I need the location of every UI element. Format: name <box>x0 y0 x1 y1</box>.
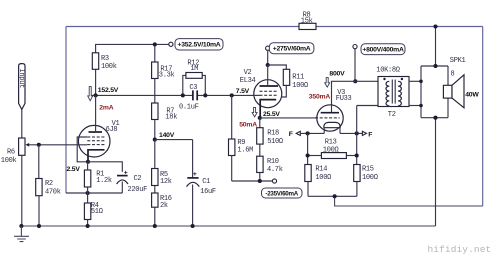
wire R18/R10 link <box>259 144 261 156</box>
wire wiper to V1 grid <box>29 144 88 146</box>
node junction R9 top tap <box>230 93 234 97</box>
wire V3 plate feed <box>332 81 356 112</box>
terminal +352.5V <box>169 42 173 46</box>
node junction R1/R4/feedback <box>86 191 90 195</box>
node junction filament center return <box>333 194 337 198</box>
svg-text:+275V/60mA: +275V/60mA <box>273 46 311 53</box>
svg-text:51Ω: 51Ω <box>91 208 103 216</box>
wire R13 left lead <box>308 155 322 157</box>
svg-text:2mA: 2mA <box>99 105 113 112</box>
terminal +800V <box>353 45 357 49</box>
T2 primary polarity dot <box>383 78 385 80</box>
svg-text:7.5V: 7.5V <box>236 88 250 95</box>
svg-text:EL34: EL34 <box>240 77 256 85</box>
wire speaker negative drop <box>435 118 437 226</box>
wire +275V terminal drop <box>267 50 269 65</box>
svg-text:Input: Input <box>17 69 25 89</box>
connector input jack <box>19 64 25 110</box>
wire speaker positive drop to rail <box>435 27 437 67</box>
svg-text:18k: 18k <box>165 113 177 121</box>
resistor R4 <box>84 203 90 220</box>
svg-text:C1: C1 <box>202 178 210 186</box>
node junction R2/ground bus <box>37 224 41 228</box>
svg-text:100k: 100k <box>1 157 17 165</box>
svg-text:1.6M: 1.6M <box>237 147 253 155</box>
terminal -235V <box>272 179 276 183</box>
svg-text:100Ω: 100Ω <box>315 174 331 182</box>
svg-text:8: 8 <box>451 71 455 79</box>
callout box +275V/60mA <box>269 43 314 54</box>
V2 plate bar <box>260 85 279 87</box>
wire C1 top lead <box>192 140 194 178</box>
node junction R16/ground bus <box>153 224 157 228</box>
wire R1 top lead <box>87 162 89 170</box>
wire C2 bottom lead <box>121 182 123 194</box>
V2 cathode bar and lead <box>260 100 276 118</box>
svg-text:25.5V: 25.5V <box>263 111 280 118</box>
wire 152.5V row right of C3 <box>197 94 254 96</box>
V3 filament <box>324 122 340 127</box>
svg-text:1M: 1M <box>190 65 198 73</box>
wire top feedback rail <box>66 26 483 28</box>
wire F left to filament <box>300 132 324 134</box>
V1 plate bar <box>89 131 103 133</box>
node junction secondary top tap <box>419 80 423 84</box>
node junction 140V <box>153 138 157 142</box>
svg-text:470k: 470k <box>45 188 61 196</box>
wire R5 top lead <box>154 140 156 169</box>
wire T2 primary bottom pin <box>357 105 378 107</box>
wire R1 bottom lead <box>87 187 89 193</box>
resistor R7 <box>152 103 158 120</box>
node junction V2 cathode/V3 grid <box>258 116 262 120</box>
wire R2 top lead <box>38 145 40 179</box>
wire R15 bottom lead <box>356 182 358 197</box>
wire R7 bottom lead <box>154 120 156 140</box>
terminal F left arrow <box>296 131 300 135</box>
node junction R12/C3 right <box>203 93 207 97</box>
V1 grid dashes <box>87 137 104 145</box>
resistor R9 <box>229 139 235 156</box>
node junction +352.5V/R17 <box>153 42 157 46</box>
svg-text:C2: C2 <box>134 175 142 183</box>
wire filament return bottom run <box>335 196 483 206</box>
node junction R12/C3 left <box>181 93 185 97</box>
svg-text:4.7k: 4.7k <box>267 166 283 174</box>
wire -235V rail <box>232 180 273 182</box>
wire 152.5V node row <box>90 94 193 96</box>
svg-text:800V: 800V <box>329 70 345 77</box>
node junction C1/ground bus <box>191 224 195 228</box>
svg-text:100k: 100k <box>101 63 117 71</box>
wire right border (speaker+ to filament return) <box>482 27 484 207</box>
potentiometer R6 <box>19 138 25 155</box>
svg-text:-235V/60mA: -235V/60mA <box>265 190 298 197</box>
svg-text:F: F <box>289 131 293 138</box>
V3 plate bar <box>321 112 339 114</box>
svg-text:350mA: 350mA <box>309 93 331 100</box>
wire R16 bottom lead <box>154 207 156 226</box>
wire R11 bottom to screen <box>282 85 286 97</box>
svg-text:F: F <box>368 131 372 138</box>
callout box -235V/60mA <box>262 188 303 198</box>
node junction wiper/R2 <box>37 143 41 147</box>
svg-text:12k: 12k <box>160 178 172 186</box>
capacitor C3 <box>193 90 197 100</box>
resistor R5 <box>152 169 158 186</box>
wire filament right to F right <box>340 132 362 134</box>
svg-text:R15: R15 <box>362 166 374 174</box>
wire cathode to C2 top <box>88 162 122 172</box>
resistor R2 <box>36 179 42 196</box>
V1 cathode bar and lead <box>88 150 105 162</box>
node junction R4/ground bus <box>86 224 90 228</box>
T2 secondary polarity dot <box>401 78 403 80</box>
wire ground bus <box>21 225 435 227</box>
wire R17 bottom lead <box>154 79 156 96</box>
node junction R10/-235V rail <box>258 179 262 183</box>
svg-text:15k: 15k <box>301 17 313 25</box>
svg-text:140V: 140V <box>159 132 175 139</box>
wire V3 filament left pin <box>323 128 325 134</box>
node junction secondary bottom tap <box>419 104 423 108</box>
svg-text:100Ω: 100Ω <box>362 174 378 182</box>
V3 grid dashes <box>315 117 340 119</box>
svg-text:100Ω: 100Ω <box>292 82 308 90</box>
svg-text:C3: C3 <box>189 84 197 92</box>
wire V2 plate lead <box>267 65 269 86</box>
wire hum pot bottom row <box>308 195 357 197</box>
svg-text:100Ω: 100Ω <box>323 146 339 154</box>
wire T2 secondary bottom pin <box>409 105 421 107</box>
capacitor C1 curved plate <box>187 182 200 186</box>
svg-text:152.5V: 152.5V <box>98 87 119 94</box>
tube V1 envelope <box>78 125 110 157</box>
wire R17 top lead <box>154 44 156 62</box>
wire V1 g3 tie to cathode <box>77 137 88 162</box>
node junction V1 cathode <box>86 160 90 164</box>
svg-text:3.3k: 3.3k <box>159 71 175 79</box>
node junction +800V/T2 primary top <box>353 79 357 83</box>
wire hum pot left drop <box>307 133 309 164</box>
node junction R13 left <box>306 153 310 157</box>
svg-text:10K:8Ω: 10K:8Ω <box>376 67 400 75</box>
arrow 350mA plate current <box>325 78 330 88</box>
svg-text:2k: 2k <box>160 202 168 210</box>
svg-text:6J8: 6J8 <box>106 126 118 134</box>
node junction rail/speaker drop <box>433 24 437 28</box>
wire T2 primary top pin <box>355 80 378 82</box>
wire left feedback drop <box>65 27 67 194</box>
resistor R14 <box>305 165 311 182</box>
svg-text:T2: T2 <box>388 111 396 119</box>
svg-text:0.1uF: 0.1uF <box>179 104 199 112</box>
wire feedback node row <box>66 192 122 194</box>
node junction speaker top <box>433 64 437 68</box>
svg-text:FU33: FU33 <box>336 95 352 103</box>
svg-text:R18: R18 <box>267 129 279 137</box>
svg-text:+352.5V/10mA: +352.5V/10mA <box>178 42 221 49</box>
resistor R15 <box>354 165 360 182</box>
wire R2 bottom lead <box>38 196 40 226</box>
wire R9 bottom lead <box>231 156 233 182</box>
svg-text:R10: R10 <box>267 158 279 166</box>
svg-text:50mA: 50mA <box>239 122 257 129</box>
svg-text:40W: 40W <box>465 92 479 99</box>
T2 primary winding <box>386 81 389 106</box>
node junction R6/ground bus <box>19 224 23 228</box>
ground <box>14 226 29 242</box>
resistor R8 <box>299 23 316 29</box>
wire T2 secondary top pin <box>409 80 421 82</box>
wire R7 top lead <box>154 95 156 103</box>
wire T2 primary bottom return <box>356 106 358 134</box>
wire speaker loop bottom <box>421 117 448 119</box>
node junction filament right <box>355 131 359 135</box>
svg-text:510Ω: 510Ω <box>267 138 283 146</box>
svg-text:V2: V2 <box>244 69 252 77</box>
wire input jack to pot <box>21 110 23 139</box>
resistor R18 <box>257 128 263 144</box>
resistor R10 <box>257 156 263 172</box>
resistor R17 <box>152 62 158 79</box>
svg-text:2.5V: 2.5V <box>67 166 81 173</box>
wire R6 bottom to ground <box>21 155 23 226</box>
wire R5/R16 link <box>154 186 156 194</box>
svg-text:16uF: 16uF <box>200 188 216 196</box>
wire +352.5V node <box>96 44 169 53</box>
terminal +275V <box>266 46 270 50</box>
resistor R11 <box>283 69 289 85</box>
callout box +352.5V/10mA <box>175 39 223 50</box>
wire hum pot right drop <box>356 133 358 164</box>
capacitor C1 plus plate <box>187 177 198 179</box>
svg-text:1.2k: 1.2k <box>96 177 112 185</box>
wire R4 top lead <box>87 193 89 203</box>
callout box +800V/400mA <box>361 44 405 55</box>
capacitor C2 curved plate <box>117 180 128 184</box>
T2 secondary winding <box>398 81 401 106</box>
resistor R1 <box>84 170 90 187</box>
wire R12 right lead <box>202 75 205 95</box>
svg-text:SPK1: SPK1 <box>450 57 466 65</box>
wire R18 top lead <box>259 118 261 128</box>
wire R9 top lead <box>231 95 233 139</box>
tube V2 envelope <box>254 80 282 108</box>
wire R14 bottom lead <box>307 182 309 197</box>
node junction speaker bottom <box>433 116 437 120</box>
resistor R16 <box>152 193 158 207</box>
transformer T2 core box <box>378 77 409 107</box>
svg-text:220uF: 220uF <box>128 186 148 194</box>
wire R4 bottom lead <box>87 220 89 227</box>
wire C1 bottom lead <box>192 185 194 227</box>
speaker SPK1 driver <box>443 75 464 108</box>
wire R3 bottom lead <box>95 69 97 95</box>
T2 core laminations <box>392 80 395 104</box>
svg-text:R3: R3 <box>101 55 109 63</box>
wire +800V terminal drop <box>354 49 356 82</box>
wire R13 right lead <box>346 155 356 157</box>
svg-text:+800V/400mA: +800V/400mA <box>362 47 404 54</box>
node junction R13 right <box>355 153 359 157</box>
svg-text:R11: R11 <box>292 74 304 82</box>
terminal F right arrow <box>362 131 366 135</box>
wire V2 grid entry <box>254 94 260 96</box>
capacitor C2 plus plate <box>117 175 128 177</box>
wire speaker loop right <box>447 66 449 118</box>
wire R12 left lead <box>183 75 186 95</box>
resistor R3 <box>92 53 98 70</box>
svg-text:+: + <box>193 171 197 178</box>
node junction V1 plate <box>94 93 98 97</box>
svg-text:hifidiy.net: hifidiy.net <box>428 244 492 255</box>
svg-text:R2: R2 <box>45 180 53 188</box>
wire V3 filament right pin <box>339 128 341 134</box>
node junction V2 plate/R11 <box>266 63 270 67</box>
V2 grid dashes <box>260 91 278 95</box>
wire R11 top feed <box>268 65 287 69</box>
arrow 152.5V measurement <box>88 87 93 101</box>
wire speaker loop left <box>420 66 422 118</box>
wire 140V node row <box>155 139 193 141</box>
pot R6 wiper arrow <box>25 143 29 147</box>
svg-text:R14: R14 <box>315 166 327 174</box>
resistor R13 <box>321 153 346 159</box>
svg-text:+: + <box>124 169 128 176</box>
tube V3 envelope <box>317 105 343 131</box>
node junction filament left <box>306 131 310 135</box>
wire speaker loop top <box>421 65 448 67</box>
resistor R12 <box>186 73 202 79</box>
wire V2 cathode to V3 grid <box>260 117 316 119</box>
arrow 25.5V measurement <box>252 107 257 117</box>
wire V1 plate lead <box>95 95 97 132</box>
svg-text:R6: R6 <box>7 149 15 157</box>
wire R10 bottom lead <box>259 173 261 182</box>
